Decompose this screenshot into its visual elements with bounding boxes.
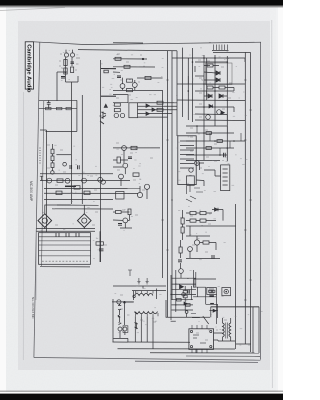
wire bold tap y96.2 (101, 95, 116, 97)
transformer T1 top rail (132, 290, 166, 292)
diode D3 (208, 94, 212, 98)
IC U3 pins (192, 325, 207, 353)
wire T1 secondary drops (135, 316, 153, 349)
label TP1 (76, 57, 80, 59)
resistor R30 (116, 192, 124, 200)
wire left col links (185, 286, 186, 317)
capacitor C4 between buses (47, 100, 51, 108)
wire protection ladder verticals (171, 270, 196, 320)
label specks mid (47, 143, 153, 193)
resistor R40 (115, 57, 121, 60)
wire double bus y229 (37, 229, 96, 232)
wire jack bus (112, 301, 134, 303)
fuse F1 bracket (118, 304, 121, 312)
relay K1 internal bars (180, 141, 194, 168)
ground G2 (146, 278, 149, 284)
wire right ladder y126 (186, 125, 227, 127)
wire bottom right verticals (253, 307, 259, 353)
wire bottom frame right drop (235, 344, 237, 349)
transistor Q50 (42, 218, 47, 223)
wire rung y278 (172, 277, 197, 279)
tick marks center trunks (161, 80, 173, 250)
wire cluster left tap (57, 71, 66, 73)
terminal text row (42, 260, 88, 262)
resistor R80 (177, 298, 182, 301)
wire T1 left leg (126, 291, 134, 302)
box PSU outline (193, 287, 218, 304)
diode D30 (213, 309, 216, 312)
diode D12 (146, 112, 149, 115)
wire ladder y106 (138, 105, 178, 107)
resistor R4 inline (46, 107, 52, 109)
transistor Q31 (189, 168, 193, 172)
wire right bottom bus y307 drop (210, 307, 212, 318)
node dot A (65, 71, 66, 72)
resistor R34 (157, 108, 163, 111)
wire ladder y110 (138, 109, 178, 111)
wire T2 leads (218, 318, 235, 341)
resistor R35 (116, 211, 122, 214)
wire inner left vertical (42, 101, 44, 266)
wire ladder y103 (138, 102, 178, 104)
resistor R22 (51, 163, 54, 168)
diode D10 (146, 104, 149, 107)
wire vertical x192 (192, 48, 194, 122)
resistor R71 (200, 212, 206, 215)
wire diagonal to U3 (203, 316, 209, 324)
resistor R41 (124, 65, 130, 68)
resistor R6 inline (66, 107, 71, 109)
transistor Q21 (65, 178, 70, 183)
transistor Q23 (98, 177, 103, 182)
transistor Q25 (122, 146, 127, 151)
connector J1 ticks (214, 45, 228, 51)
transformer T1 primary coils (135, 293, 153, 295)
transistor Q34 (123, 218, 128, 223)
potentiometer VR1 (63, 162, 67, 166)
wire top of T1 to bus (113, 286, 166, 289)
label specks scattered (40, 42, 263, 347)
wire right ladder y141 (186, 140, 245, 142)
lamp box DS1 (222, 288, 231, 296)
transformer T2 core (226, 323, 228, 339)
antenna symbol (128, 270, 132, 276)
wire vertical x206.7 (206, 58, 208, 100)
wire vertical x215 (214, 55, 216, 126)
wire rung y300 (172, 299, 194, 301)
wire vertical x57 (56, 72, 58, 101)
IC U1 box (129, 103, 138, 118)
rect outline diode ladder (206, 63, 233, 85)
wire right column y120 (195, 119, 245, 122)
capacitor C31 (123, 327, 127, 331)
diode D4 (219, 94, 223, 98)
resistor R70 (190, 212, 196, 215)
frame left lower segment (35, 230, 37, 300)
wire stub y72 (113, 71, 120, 73)
page top edge shadow (0, 8, 65, 11)
wire jogs right block (188, 58, 245, 121)
resistor R45 (206, 132, 211, 135)
IC U3 corner circles (190, 330, 192, 332)
capacitor C15 (224, 153, 226, 157)
wire rung y305 (172, 304, 194, 306)
transformer T1 secondary coils (135, 312, 158, 314)
wire col links (182, 210, 184, 240)
wire vertical x82.3 (81, 95, 83, 204)
transistor Q26 (123, 163, 128, 168)
wire right column y114 (195, 113, 227, 116)
capacitor C30 (118, 327, 122, 331)
wire vertical x182.5 (182, 48, 184, 117)
transformer T1 secondary taps (135, 313, 158, 316)
wire vertical x177 (176, 51, 178, 136)
wire bus y306 right (211, 306, 259, 308)
ladder stubs (197, 126, 241, 155)
transistor Q29 (137, 192, 142, 197)
capacitor C32 blob (118, 315, 120, 317)
wire vertical x71.4 (70, 82, 72, 204)
switch S1 marks (135, 323, 138, 330)
transistor Q40 (120, 84, 125, 89)
wire rung y284 (172, 283, 197, 285)
IC U3 box (189, 329, 214, 350)
wire right link y307corner (211, 306, 259, 308)
wire rung y289 (172, 288, 197, 290)
transistor Q30 (195, 161, 200, 166)
wire left bottom corner x113 (112, 299, 114, 342)
wire rows y174 (40, 173, 113, 175)
wire q34 links (113, 212, 132, 228)
frame left edge (34, 42, 40, 358)
wire rnet links (186, 210, 223, 221)
wire cluster2 links (123, 78, 135, 91)
transformer T1 coil start blob (135, 312, 138, 314)
capacitor C41 (178, 260, 182, 262)
relay box K1 (178, 136, 196, 185)
terminal square M1a (209, 290, 212, 292)
resistor R47 (206, 147, 211, 150)
fuse marks y296 (209, 295, 214, 297)
wire y279 (194, 279, 216, 287)
wire right column y76 (195, 75, 204, 77)
capacitor C12 (128, 157, 132, 159)
resistor R10 (207, 64, 213, 67)
resistor R26 (84, 191, 90, 194)
terminal rows (39, 237, 91, 256)
transistor Q28 (144, 184, 149, 189)
connector J1 body (212, 50, 229, 52)
capacitor C1 (71, 62, 75, 64)
diamond heatsink Q50 (38, 214, 52, 228)
wire right column y62 (195, 61, 227, 63)
wire U3 to T2 (214, 333, 223, 341)
frame top line (34, 42, 261, 45)
transistor Q1 (64, 53, 68, 57)
capacitor C13 (221, 165, 230, 191)
resistor R21 (51, 156, 54, 161)
transistor Q19 (51, 171, 54, 174)
diode D7 (221, 111, 224, 114)
node dots right block (188, 57, 229, 108)
transistor Q51 (82, 218, 87, 223)
resistor R20 (51, 149, 54, 154)
diode D6 (209, 105, 212, 108)
wire cluster stem (66, 50, 73, 82)
diode D32 (180, 285, 184, 289)
resistor R81 (186, 304, 191, 307)
tick marks right verticals (244, 80, 252, 300)
wire right column y107 (195, 106, 234, 108)
junction marks x100 (100, 116, 105, 124)
wire verticals psu (192, 286, 218, 324)
resistor R7 (104, 70, 108, 73)
wire vertical trunk x167 (167, 51, 169, 317)
terminal pins (56, 233, 79, 237)
wire vertical x227 (226, 56, 228, 161)
resistor R74 (203, 241, 209, 244)
label specks bottom (120, 292, 227, 340)
wire col2 links (180, 240, 182, 278)
page right edge line (271, 20, 274, 388)
diamond heatsink Q51 (78, 214, 92, 228)
wire right ladder y155 (186, 154, 227, 156)
wire right drop x100 (99, 231, 101, 262)
box sub U2 (187, 176, 195, 185)
wire vertical x46.4 (45, 130, 47, 232)
node dots ladder2 (170, 283, 176, 305)
wire below table (40, 266, 90, 268)
wire right column y84 (177, 83, 245, 85)
transistor Q10 (217, 110, 222, 115)
wire y310.4 (209, 309, 217, 311)
wire vertical x162.6 (162, 90, 164, 278)
node J11 (124, 301, 126, 303)
box M1 ticks (209, 289, 214, 293)
wire right inner bottom (236, 343, 251, 345)
resistor R52 (96, 242, 103, 245)
transistor Q33 (120, 113, 124, 117)
wire right inner vertical x235.6 (235, 204, 237, 344)
wire right column y58 (172, 57, 245, 59)
resistor R23 (57, 179, 63, 182)
resistor R42 (127, 79, 133, 82)
wire rows y193 (44, 192, 138, 194)
wire y205 bus (57, 204, 99, 206)
indicator circle P1 (182, 293, 186, 297)
capacitor C2 (61, 77, 65, 79)
transistor Q2 (70, 53, 74, 57)
wire bus y155 (56, 154, 71, 156)
resistor R3 (71, 67, 74, 73)
jack J10 (117, 300, 121, 304)
resistor R46 (217, 140, 222, 143)
box M1 (207, 288, 217, 295)
wire cluster bottom (66, 76, 79, 82)
wire bottom rail y349 (118, 348, 236, 350)
terminal circle T1 (133, 295, 135, 297)
wire mid links (113, 150, 147, 199)
label specks upper left (59, 54, 79, 70)
resistor R5 inline (56, 107, 62, 109)
resistor R1 (64, 60, 67, 66)
label specks right top (198, 60, 232, 117)
wire second top bus (113, 42, 143, 44)
ground G1 (137, 278, 140, 284)
wire rows y181 (40, 180, 130, 182)
wire right inner top (213, 51, 251, 53)
wire bits y312-317 (191, 314, 200, 318)
lamp DS1 (224, 289, 228, 293)
transistor Q60 (194, 240, 199, 245)
transistor Q32 (114, 113, 118, 117)
transistor Q20 (47, 178, 52, 183)
logo box Cambridge Audio (25, 42, 33, 89)
wire y356 partial (186, 355, 260, 357)
wire left bus y100 (39, 99, 77, 101)
wire y226 (186, 225, 236, 227)
wire U3 bottom drop (195, 349, 197, 353)
wire ladder y117 (138, 116, 168, 118)
wire bold tap y68.5 (101, 68, 116, 70)
label specks right mid (190, 128, 217, 168)
lamp DS1 dot (226, 291, 227, 292)
bottom black bar (0, 394, 283, 400)
bracket mark (118, 323, 121, 325)
wire x190 drop (189, 226, 191, 236)
node dot B (142, 58, 144, 60)
capacitor C10 (78, 165, 80, 169)
wire right column stubs (204, 66, 234, 97)
diode D5 (104, 104, 107, 107)
resistor R73 (200, 219, 206, 222)
thick bus segment (65, 185, 76, 187)
wire right ladder y133 (186, 132, 234, 134)
wire bottom rail y353 (150, 352, 259, 354)
wire rows y187 (44, 187, 140, 189)
transformer T2 left winding (223, 323, 225, 337)
wire bottom-left of relay (186, 185, 203, 202)
transistor Q3 (101, 112, 106, 120)
wire y131 (46, 122, 77, 132)
resistor R24 (74, 186, 80, 189)
fuse marks y304 (210, 303, 214, 305)
resistor R72 (190, 219, 196, 222)
wire bus end drop (76, 100, 78, 108)
transformer T2 right winding (229, 323, 231, 337)
wire vertical x188 (187, 58, 189, 120)
resistor R28 (133, 173, 139, 176)
diode D20 (215, 208, 219, 211)
resistor R44 (145, 76, 151, 79)
resistor R36 (128, 209, 131, 215)
wire vertical x100.3 (100, 60, 102, 262)
wire stub y78 x137-162 (137, 77, 163, 79)
wire x156 drop (156, 289, 158, 300)
wire bus y59 (113, 58, 147, 60)
diode D2 (216, 78, 220, 82)
box U1a outline (113, 95, 128, 103)
wire stub y321 (171, 320, 176, 322)
frame right edge (259, 42, 261, 359)
wire vertical x204 (203, 55, 205, 160)
wire x77 drop2 (76, 109, 78, 122)
resistor R11 (207, 86, 213, 89)
page bottom edge line (0, 391, 283, 392)
transistor Q11 (206, 115, 211, 120)
capacitor C14 (118, 224, 122, 226)
wire right ladder y160 (186, 160, 220, 162)
label specks top mid (116, 54, 142, 98)
wire chain links (52, 144, 54, 171)
wire mid-links relay to C13 (196, 163, 220, 186)
wire bottom-left links (113, 303, 128, 342)
T mark left (40, 176, 43, 180)
capacitor C11 (70, 165, 72, 169)
transistor Q22 (82, 178, 87, 183)
wire y209 bus (52, 208, 113, 210)
frame bottom inner line (135, 361, 258, 362)
wire bus y148 (113, 147, 160, 149)
capacitor C42 (188, 290, 190, 294)
transistor Q24 (101, 180, 105, 184)
wire ladder y114 (138, 113, 173, 115)
transistor Q62 (179, 269, 184, 274)
resistor R27 (131, 146, 137, 149)
wire right ladder y148 (186, 147, 234, 149)
diode D31 (184, 302, 187, 305)
box around C31 (123, 326, 128, 333)
frame tick text (39, 148, 41, 163)
wire bottom rail y342 (113, 341, 191, 343)
wire diamond links (45, 205, 85, 229)
resistor R77 (179, 247, 182, 253)
resistor R83 (183, 295, 187, 298)
wire corner x166 y317 (166, 300, 210, 317)
resistor R31 (114, 103, 120, 106)
wire q60 links (190, 236, 216, 258)
capacitor C13 plates (223, 169, 228, 185)
wire y296.8 (193, 296, 216, 298)
resistor R75 (181, 218, 184, 224)
wire rung y310 (172, 309, 194, 311)
transistor Q61 (188, 247, 193, 252)
page left crease (22, 92, 24, 360)
wire bus y67 (113, 66, 155, 68)
terminal block TB1 (39, 233, 91, 265)
wire right inner vertical x245 (244, 52, 246, 344)
frame bottom line (34, 358, 261, 361)
terminal square M1b (212, 290, 215, 292)
resistor R32 (114, 109, 120, 112)
diode D11 (152, 108, 155, 111)
ladder dots (196, 125, 235, 156)
wire left bus y108 (39, 108, 77, 110)
transistor Q27 (119, 174, 124, 179)
wire rows y200 (44, 199, 113, 201)
transistor Q41 (132, 83, 137, 88)
resistor R29 (117, 157, 120, 163)
resistor R12 (219, 86, 225, 89)
capacitor C40 (212, 255, 214, 259)
capacitor C21 (99, 249, 104, 251)
transformer T1 primary taps (135, 291, 153, 294)
jack J20 (185, 311, 188, 314)
capacitor C20 (117, 76, 121, 78)
wire bus y130 (40, 129, 46, 131)
wire y258 (186, 258, 220, 260)
resistor R33 (157, 101, 163, 104)
